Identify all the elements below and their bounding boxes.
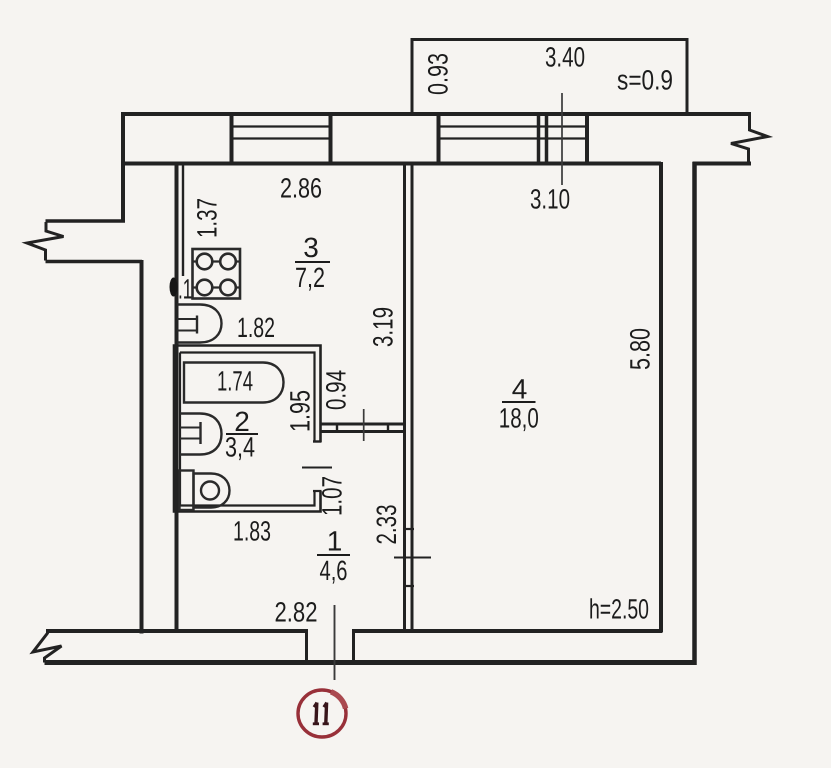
svg-text:1.82: 1.82 xyxy=(237,312,275,343)
svg-text:3: 3 xyxy=(303,232,319,263)
svg-text:1.83: 1.83 xyxy=(233,516,271,547)
svg-text:3,4: 3,4 xyxy=(225,432,255,463)
svg-text:0.94: 0.94 xyxy=(321,370,352,410)
svg-text:1: 1 xyxy=(327,526,343,557)
svg-text:3.40: 3.40 xyxy=(545,42,585,73)
svg-text:1.07: 1.07 xyxy=(317,476,348,516)
svg-text:7,2: 7,2 xyxy=(295,262,325,293)
svg-text:4,6: 4,6 xyxy=(320,555,348,586)
svg-text:18,0: 18,0 xyxy=(499,403,539,434)
svg-text:2.33: 2.33 xyxy=(371,505,402,545)
svg-text:0.93: 0.93 xyxy=(423,53,454,95)
svg-text:3.10: 3.10 xyxy=(530,184,570,215)
svg-text:1.74: 1.74 xyxy=(217,366,253,397)
svg-text:3.19: 3.19 xyxy=(368,307,399,347)
svg-text:2.82: 2.82 xyxy=(275,597,318,628)
svg-text:1.37: 1.37 xyxy=(192,198,223,238)
svg-text:2.86: 2.86 xyxy=(280,173,322,204)
svg-text:s=0.9: s=0.9 xyxy=(617,65,673,96)
svg-text:1.95: 1.95 xyxy=(285,390,316,432)
svg-text:4: 4 xyxy=(512,374,528,405)
svg-text:5.80: 5.80 xyxy=(625,328,656,370)
svg-text:h=2.50: h=2.50 xyxy=(589,594,649,625)
